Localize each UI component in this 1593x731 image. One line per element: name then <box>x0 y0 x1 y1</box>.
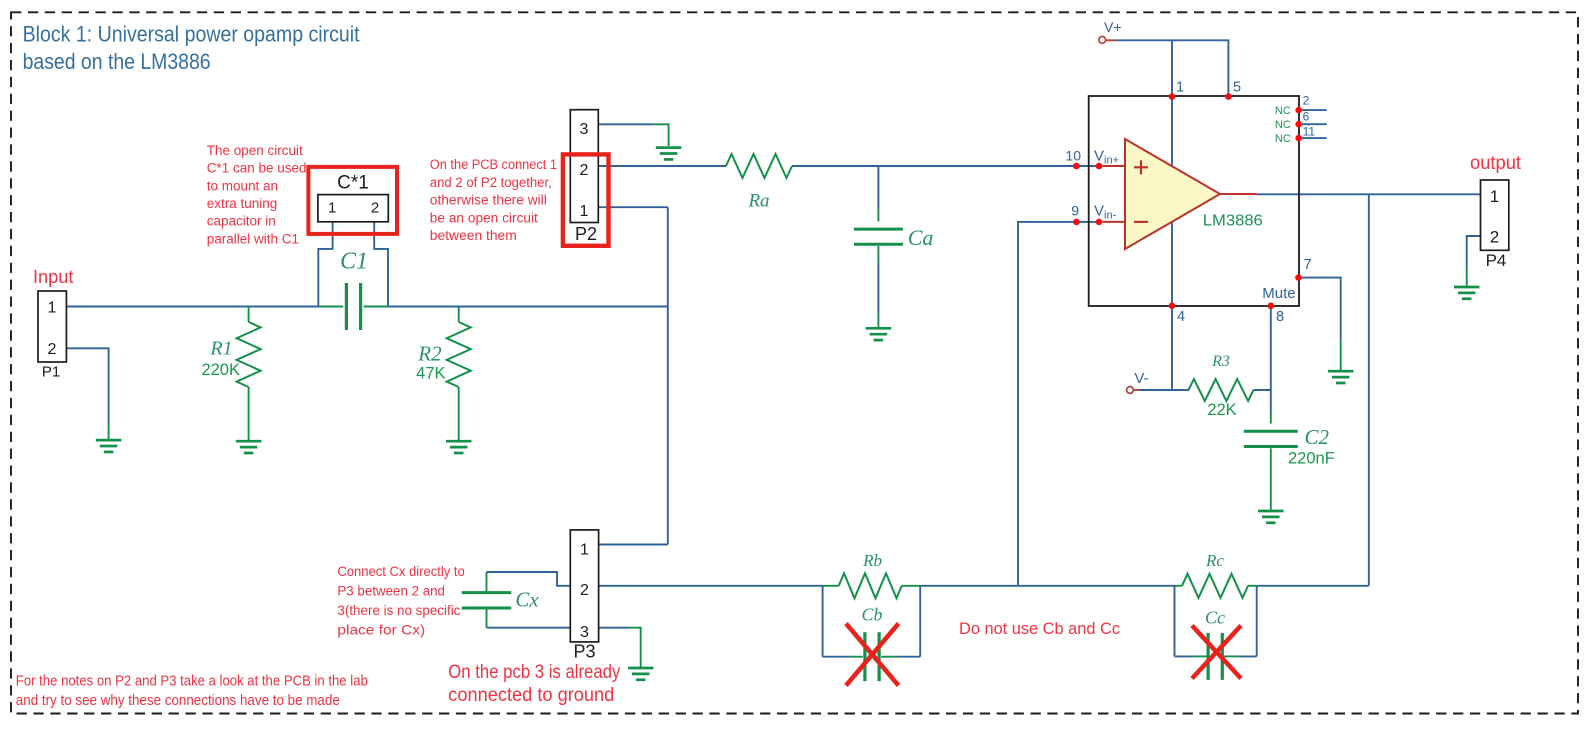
svg-text:2: 2 <box>1303 94 1310 108</box>
svg-text:1: 1 <box>580 542 589 559</box>
svg-text:be an open circuit: be an open circuit <box>430 210 538 225</box>
svg-text:P2: P2 <box>575 224 597 244</box>
svg-text:output: output <box>1470 153 1522 174</box>
svg-text:On the pcb 3 is already: On the pcb 3 is already <box>448 662 620 683</box>
svg-text:The open circuit: The open circuit <box>207 143 303 158</box>
svg-text:9: 9 <box>1071 203 1079 219</box>
svg-text:connected to ground: connected to ground <box>448 685 614 706</box>
svg-text:NC: NC <box>1275 119 1291 131</box>
svg-text:10: 10 <box>1065 147 1081 163</box>
svg-text:2: 2 <box>580 582 589 599</box>
svg-text:5: 5 <box>1233 79 1241 95</box>
svg-text:capacitor in: capacitor in <box>207 214 276 229</box>
svg-text:220K: 220K <box>201 361 240 379</box>
svg-text:220nF: 220nF <box>1288 450 1335 468</box>
svg-text:On the PCB connect 1: On the PCB connect 1 <box>430 157 557 172</box>
svg-text:Cc: Cc <box>1205 608 1225 628</box>
svg-text:Cb: Cb <box>861 605 882 625</box>
svg-text:8: 8 <box>1276 309 1284 325</box>
svg-text:between them: between them <box>430 228 517 243</box>
svg-text:22K: 22K <box>1207 401 1236 419</box>
svg-text:parallel with C1: parallel with C1 <box>207 231 299 246</box>
svg-text:Ca: Ca <box>908 225 934 250</box>
svg-text:C*1 can be used: C*1 can be used <box>207 161 307 176</box>
svg-text:P3 between 2 and: P3 between 2 and <box>337 582 445 598</box>
svg-text:Block 1: Universal power opamp: Block 1: Universal power opamp circuit <box>23 22 361 47</box>
svg-text:R2: R2 <box>417 342 442 366</box>
svg-text:NC: NC <box>1275 133 1291 145</box>
svg-text:Input: Input <box>33 267 74 287</box>
svg-text:V+: V+ <box>1104 19 1122 35</box>
svg-text:and 2 of P2 together,: and 2 of P2 together, <box>430 175 552 190</box>
svg-text:V-: V- <box>1134 370 1148 387</box>
svg-text:Mute: Mute <box>1262 285 1295 302</box>
svg-text:4: 4 <box>1177 309 1185 325</box>
svg-text:and try to see why these conne: and try to see why these connections hav… <box>16 693 340 709</box>
svg-text:3(there is no specific: 3(there is no specific <box>337 602 460 618</box>
svg-text:Cx: Cx <box>515 588 539 612</box>
svg-text:2: 2 <box>1490 227 1499 246</box>
svg-text:Connect Cx directly to: Connect Cx directly to <box>337 563 465 579</box>
svg-text:LM3886: LM3886 <box>1203 212 1263 229</box>
svg-text:R1: R1 <box>209 338 232 360</box>
svg-text:place for Cx): place for Cx) <box>337 622 425 638</box>
svg-text:Do not use Cb and Cc: Do not use Cb and Cc <box>959 619 1120 638</box>
svg-text:P3: P3 <box>573 642 595 662</box>
svg-text:NC: NC <box>1275 105 1291 117</box>
svg-text:otherwise there will: otherwise there will <box>430 193 547 208</box>
svg-text:C1: C1 <box>340 248 368 274</box>
svg-text:based on the LM3886: based on the LM3886 <box>23 49 211 74</box>
svg-text:R3: R3 <box>1211 353 1230 370</box>
svg-text:2: 2 <box>580 162 589 179</box>
svg-text:11: 11 <box>1303 125 1316 139</box>
svg-text:6: 6 <box>1303 110 1310 124</box>
svg-text:Rb: Rb <box>862 551 882 570</box>
svg-text:1: 1 <box>580 203 589 220</box>
svg-text:Ra: Ra <box>747 190 769 211</box>
svg-text:For the notes on P2 and P3 tak: For the notes on P2 and P3 take a look a… <box>16 673 368 689</box>
svg-text:1: 1 <box>48 300 57 317</box>
svg-text:1: 1 <box>328 200 336 217</box>
svg-text:to mount an: to mount an <box>207 178 278 193</box>
svg-text:Rc: Rc <box>1205 551 1224 570</box>
svg-text:C2: C2 <box>1305 425 1330 449</box>
svg-text:7: 7 <box>1304 257 1312 273</box>
svg-text:extra tuning: extra tuning <box>207 196 278 211</box>
svg-text:2: 2 <box>48 341 57 358</box>
svg-text:1: 1 <box>1490 187 1499 206</box>
svg-text:2: 2 <box>371 200 379 217</box>
svg-text:47K: 47K <box>416 364 445 382</box>
svg-text:3: 3 <box>580 121 589 138</box>
svg-text:P1: P1 <box>42 364 60 381</box>
svg-text:C*1: C*1 <box>337 173 369 194</box>
svg-text:P4: P4 <box>1486 251 1507 270</box>
svg-text:3: 3 <box>580 624 589 641</box>
svg-text:1: 1 <box>1176 79 1184 95</box>
